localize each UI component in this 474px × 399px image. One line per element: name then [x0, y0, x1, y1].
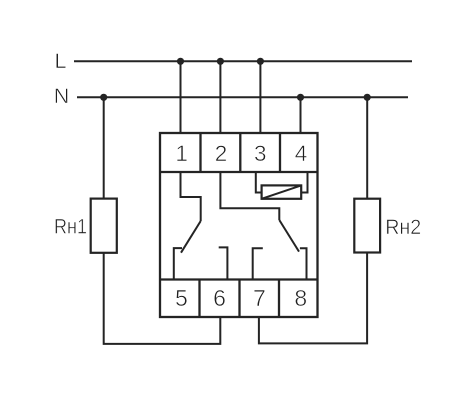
terminal divider 2/3: [239, 133, 241, 172]
load resistor Rn2 body: [354, 199, 380, 253]
switch K2 contact to pin 8: [300, 248, 307, 279]
terminal strip top separator: [160, 171, 318, 173]
wire pin 3 to coil: [256, 172, 262, 193]
svg-text:Rн2: Rн2: [385, 215, 421, 239]
svg-text:7: 7: [253, 285, 266, 311]
junction dot L to pin 2: [217, 58, 224, 65]
terminal divider 1/2: [199, 133, 201, 172]
coil diagonal stroke: [262, 185, 302, 198]
wire coil to pin 4: [301, 172, 307, 193]
svg-text:N: N: [54, 84, 70, 108]
switch K2 movable arm: [279, 220, 299, 252]
junction dot N to Rn2: [364, 94, 371, 101]
switch K1 contact to pin 5: [174, 248, 182, 279]
wire pin 7 to Rn2: [259, 253, 367, 344]
wire N bus: [77, 96, 408, 98]
coil body (box with diagonal): [262, 185, 302, 198]
wire N to load Rn1: [103, 97, 105, 198]
svg-text:L: L: [55, 49, 67, 73]
wire N to load Rn2: [366, 97, 368, 198]
svg-text:8: 8: [294, 285, 307, 311]
junction dot L to pin 1: [177, 58, 184, 65]
terminal divider 7/8: [278, 280, 280, 318]
wire L to terminal 3: [259, 61, 261, 133]
junction dot N to pin 4: [297, 94, 304, 101]
terminal divider 6/7: [238, 280, 240, 318]
load resistor Rn1 body: [91, 199, 117, 253]
terminal divider 5/6: [198, 280, 200, 318]
svg-text:3: 3: [254, 141, 267, 166]
wire L to terminal 2: [219, 61, 221, 133]
svg-text:5: 5: [175, 285, 188, 311]
svg-text:2: 2: [215, 141, 228, 166]
junction dot N to Rn1: [100, 94, 107, 101]
svg-text:1: 1: [175, 141, 188, 166]
terminal strip bottom separator: [160, 278, 318, 280]
relay module outline U1: [160, 133, 318, 317]
wire L bus: [74, 60, 412, 62]
svg-text:4: 4: [295, 141, 308, 166]
terminal divider 3/4: [279, 133, 281, 172]
switch K1 contact to pin 6: [219, 247, 228, 279]
wire pin 1 to switch K1 pole: [181, 172, 201, 221]
svg-text:Rн1: Rн1: [54, 215, 87, 239]
junction dot L to pin 3: [257, 58, 264, 65]
wire Rn1 to pin 6: [104, 253, 221, 344]
wire L to terminal 1: [180, 61, 182, 133]
switch K2 contact to pin 7: [253, 248, 263, 279]
wire pin 2 to switch K2 pole: [220, 172, 279, 220]
svg-text:6: 6: [213, 285, 226, 311]
wire N to terminal 4: [300, 97, 302, 133]
switch K1 movable arm: [181, 221, 201, 253]
